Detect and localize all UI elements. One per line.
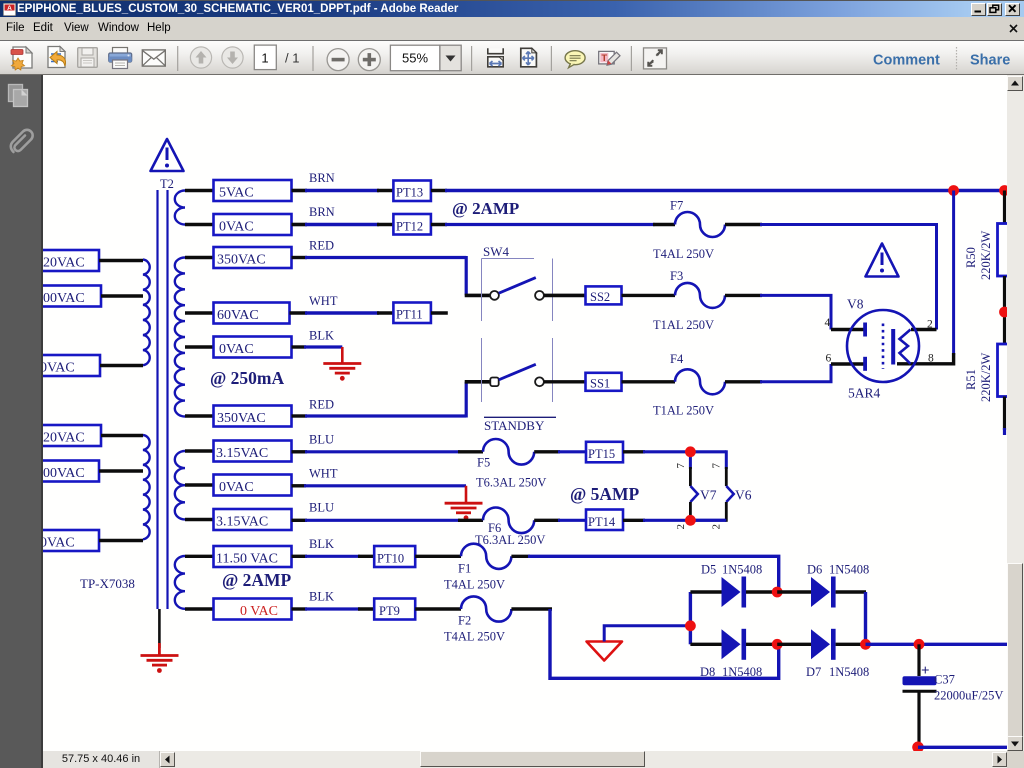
svg-text:PT9: PT9 xyxy=(379,604,400,618)
svg-text:BLU: BLU xyxy=(309,501,334,515)
wire xyxy=(101,294,143,297)
svg-text:+: + xyxy=(921,663,930,679)
svg-text:0VAC: 0VAC xyxy=(43,536,75,551)
node 220VAC (primary box 1) xyxy=(28,250,99,271)
fuse F7 xyxy=(431,223,447,227)
switch SW4 pole 1 xyxy=(490,291,499,300)
svg-text:0VAC: 0VAC xyxy=(43,361,75,376)
node 3.15VAC (secondary tap 2) xyxy=(185,518,214,521)
wire F6 to PT14 xyxy=(534,519,560,522)
svg-text:5VAC: 5VAC xyxy=(219,186,254,201)
svg-text:@ 2AMP: @ 2AMP xyxy=(222,570,292,590)
secondary winding D xyxy=(175,556,185,609)
testpoint PT10 xyxy=(374,546,415,567)
svg-text:6: 6 xyxy=(826,353,832,365)
svg-text:T6.3AL 250V: T6.3AL 250V xyxy=(475,533,545,547)
wire junction to R50 xyxy=(1003,191,1006,224)
wire BLU row9 xyxy=(292,519,308,522)
svg-text:220K/2W: 220K/2W xyxy=(979,231,993,281)
svg-text:TP-X7038: TP-X7038 xyxy=(80,576,135,591)
node 0 VAC (secondary tap, red) xyxy=(185,607,214,610)
svg-text:55%: 55% xyxy=(402,51,428,66)
wire stub after PT11 xyxy=(431,311,448,315)
diode D7 1N5408 xyxy=(777,643,811,646)
wire below R51 xyxy=(1003,397,1006,431)
svg-text:T: T xyxy=(601,53,607,64)
svg-text:1N5408: 1N5408 xyxy=(829,665,869,679)
node 350VAC (secondary tap 2) xyxy=(185,414,214,417)
svg-text:100VAC: 100VAC xyxy=(43,291,85,306)
diode D8 1N5408 xyxy=(690,643,721,646)
svg-text:WHT: WHT xyxy=(309,467,338,481)
node 100VAC (primary box 5) xyxy=(28,461,99,482)
warning triangle (near V8) xyxy=(866,244,899,277)
svg-text:4: 4 xyxy=(825,317,831,329)
svg-text:7: 7 xyxy=(675,463,687,469)
svg-text:Share: Share xyxy=(970,53,1010,69)
wire xyxy=(100,364,143,367)
fuse F6 xyxy=(483,508,534,534)
junction dot xyxy=(999,307,1010,318)
ground (row5) xyxy=(323,347,361,373)
testpoint PT14 xyxy=(586,510,623,531)
secondary winding B xyxy=(175,258,185,417)
svg-text:F7: F7 xyxy=(670,199,683,213)
svg-text:F2: F2 xyxy=(458,614,471,628)
svg-text:Comment: Comment xyxy=(873,53,940,69)
svg-text:220K/2W: 220K/2W xyxy=(979,353,993,403)
svg-text:220VAC: 220VAC xyxy=(43,256,85,271)
wire top rail (5VAC net) xyxy=(431,189,447,193)
wire D6 to right rail xyxy=(836,590,866,593)
node 0VAC (primary box 6) xyxy=(28,530,99,551)
svg-text:BLK: BLK xyxy=(309,537,334,551)
junction dot (D5/D6) xyxy=(772,587,783,598)
svg-text:T1AL 250V: T1AL 250V xyxy=(653,318,714,332)
cathode bar xyxy=(891,329,895,365)
bottom status / hscroll xyxy=(43,751,1024,768)
node 350VAC (secondary tap) xyxy=(185,256,214,259)
bridge left rail xyxy=(689,592,692,644)
switch SW4 pole 2 xyxy=(490,378,498,387)
svg-text:SS1: SS1 xyxy=(590,376,610,390)
svg-text:0VAC: 0VAC xyxy=(219,480,254,495)
node 0VAC (secondary tap, WHT to ground) xyxy=(185,483,214,486)
svg-text:PT11: PT11 xyxy=(396,308,423,322)
svg-text:RED: RED xyxy=(309,398,334,412)
svg-text:T6.3AL 250V: T6.3AL 250V xyxy=(476,476,546,490)
svg-text:11.50 VAC: 11.50 VAC xyxy=(216,552,278,567)
fuse F1 xyxy=(415,555,461,558)
svg-text:RED: RED xyxy=(309,239,334,253)
wire 350VAC(2) up to SW4 pole 2 xyxy=(465,382,468,418)
junction dot (heater bottom) xyxy=(685,515,696,526)
testpoint PT13 xyxy=(393,181,431,202)
wire PT15 to V7 junction xyxy=(623,450,645,453)
wire R50-R51 xyxy=(1003,276,1006,344)
wire SW4 pole1 to SS2 xyxy=(544,294,586,298)
svg-text:1: 1 xyxy=(261,51,268,66)
relay contact SS1 xyxy=(586,373,622,391)
fuse F4 xyxy=(622,380,676,383)
vertical scrollbar xyxy=(1007,75,1024,751)
svg-text:R50: R50 xyxy=(964,247,978,268)
wire RED row6 xyxy=(292,414,308,417)
svg-text:V7: V7 xyxy=(700,488,717,503)
wire from junction down to V8 pin 8 xyxy=(952,191,955,356)
junction dot (heater top) xyxy=(685,446,696,457)
wire PT14 to V7 junction xyxy=(623,519,645,522)
wire xyxy=(101,434,143,437)
testpoint PT11 xyxy=(393,303,431,324)
node 0VAC (primary box 3) xyxy=(28,355,100,376)
junction dot xyxy=(948,185,959,196)
svg-text:350VAC: 350VAC xyxy=(217,253,266,268)
svg-text:3.15VAC: 3.15VAC xyxy=(216,515,268,530)
wire BLK row11 xyxy=(292,607,308,610)
primary winding 1 xyxy=(143,260,150,366)
svg-text:2: 2 xyxy=(711,524,723,530)
wire xyxy=(99,469,143,472)
svg-text:PT10: PT10 xyxy=(377,552,404,566)
wire F7 to V8 pin 2 xyxy=(725,223,762,226)
svg-text:T4AL 250V: T4AL 250V xyxy=(653,247,714,261)
svg-text:D6: D6 xyxy=(807,563,822,577)
anode zigzag xyxy=(900,330,911,364)
svg-text:7: 7 xyxy=(711,463,723,469)
wire WHT row4 xyxy=(290,311,308,315)
svg-text:WHT: WHT xyxy=(309,294,338,308)
wire D7 to right rail junction xyxy=(836,643,866,646)
menu bar xyxy=(0,17,1024,40)
svg-text:BLK: BLK xyxy=(309,590,334,604)
node 100VAC (primary box 2) xyxy=(28,286,101,307)
wire F1 to bridge top xyxy=(511,555,530,558)
svg-text:0 VAC: 0 VAC xyxy=(240,604,278,619)
svg-text:PT12: PT12 xyxy=(396,220,423,234)
svg-text:F3: F3 xyxy=(670,269,683,283)
rectifier tube V8 5AR4 xyxy=(847,310,919,382)
wire F3 to V8 pin 4 xyxy=(725,294,762,297)
wire BLK row5 xyxy=(292,345,307,348)
svg-text:5AR4: 5AR4 xyxy=(848,386,881,401)
node 3.15VAC (secondary tap) xyxy=(185,449,214,452)
svg-text:F1: F1 xyxy=(458,562,471,576)
title bar xyxy=(0,0,1024,17)
wire xyxy=(99,259,143,262)
svg-text:@ 2AMP: @ 2AMP xyxy=(452,199,519,218)
junction dot xyxy=(999,185,1010,196)
wire D8 to junction xyxy=(746,643,777,646)
svg-text:8: 8 xyxy=(928,353,934,365)
svg-text:BRN: BRN xyxy=(309,205,335,219)
fuse F2 xyxy=(415,607,461,610)
ground (transformer core) xyxy=(158,609,161,648)
wire bottom rail xyxy=(918,746,1007,749)
node 60VAC (secondary tap) xyxy=(185,311,214,314)
node 11.50 VAC (secondary tap) xyxy=(185,555,214,558)
wire D5 to junction xyxy=(746,590,777,593)
node 0VAC (secondary tap) xyxy=(185,223,214,226)
svg-text:F5: F5 xyxy=(477,456,490,470)
wire WHT row8 xyxy=(292,484,307,487)
resistor R50 220K/2W xyxy=(998,224,1012,277)
node 0VAC (secondary tap, BLK to ground) xyxy=(185,345,214,348)
resistor R51 220K/2W xyxy=(998,344,1012,397)
wire SW4 pole2 to SS1 xyxy=(544,380,586,383)
svg-text:BRN: BRN xyxy=(309,171,335,185)
testpoint PT15 xyxy=(586,442,623,463)
svg-text:C37: C37 xyxy=(934,673,955,687)
svg-text:BLU: BLU xyxy=(309,433,334,447)
svg-text:PT14: PT14 xyxy=(588,515,616,529)
svg-text:F4: F4 xyxy=(670,352,684,366)
testpoint PT9 xyxy=(374,599,415,620)
diode D5 1N5408 xyxy=(690,590,721,593)
svg-text:220VAC: 220VAC xyxy=(43,431,85,446)
filament (dotted) xyxy=(882,324,885,370)
warning triangle (above T2) xyxy=(151,139,184,171)
svg-text:350VAC: 350VAC xyxy=(217,411,266,426)
nav pane strip xyxy=(0,75,43,768)
toolbar xyxy=(0,40,1024,75)
capacitor C37 22000uF/25V xyxy=(917,644,920,676)
wire F5 to PT15 xyxy=(534,450,560,453)
wire ground to bridge left xyxy=(604,626,690,642)
svg-text:T2: T2 xyxy=(160,177,174,191)
diode D6 1N5408 xyxy=(777,590,811,593)
junction dot (bridge left) xyxy=(685,620,696,631)
svg-text:60VAC: 60VAC xyxy=(217,308,259,323)
svg-text:1N5408: 1N5408 xyxy=(722,563,762,577)
secondary winding A xyxy=(175,191,185,225)
ground (bridge, open triangle) xyxy=(587,642,623,661)
wire BLU row7 xyxy=(292,450,308,453)
ground (row8) xyxy=(445,486,483,513)
svg-text:D7: D7 xyxy=(806,665,821,679)
wire F2 to bridge bottom xyxy=(511,607,552,610)
relay contact SS2 xyxy=(586,286,622,304)
svg-text:BLK: BLK xyxy=(309,329,334,343)
transformer T2 core xyxy=(158,190,168,609)
secondary winding C xyxy=(175,451,185,519)
svg-text:T4AL 250V: T4AL 250V xyxy=(444,630,505,644)
heater V6 xyxy=(725,450,728,469)
wire RED row3 xyxy=(292,256,308,259)
svg-text:STANDBY: STANDBY xyxy=(484,418,545,433)
svg-text:V6: V6 xyxy=(735,488,752,503)
wire C37 to bottom rail xyxy=(917,691,920,747)
svg-text:0VAC: 0VAC xyxy=(219,220,254,235)
svg-text:D8: D8 xyxy=(700,665,715,679)
wire BRN row1 xyxy=(292,189,308,193)
wire xyxy=(99,539,143,542)
svg-text:A: A xyxy=(7,5,12,12)
svg-text:D5: D5 xyxy=(701,563,716,577)
heater V7 xyxy=(689,452,692,469)
junction dot (D8/D7) xyxy=(772,639,783,650)
fuse F3 xyxy=(622,294,676,297)
wire BRN row2 xyxy=(292,223,308,227)
junction dot (C37 top) xyxy=(914,639,925,650)
svg-text:PT13: PT13 xyxy=(396,186,423,200)
svg-text:2: 2 xyxy=(675,524,687,530)
svg-text:T4AL 250V: T4AL 250V xyxy=(444,578,505,592)
svg-text:SW4: SW4 xyxy=(483,244,510,259)
svg-text:1N5408: 1N5408 xyxy=(829,563,869,577)
junction dot (bridge out) xyxy=(860,639,871,650)
junction dot (bottom rail) xyxy=(912,742,924,754)
svg-text:0VAC: 0VAC xyxy=(219,342,254,357)
svg-text:@ 5AMP: @ 5AMP xyxy=(570,484,640,504)
testpoint PT12 xyxy=(393,214,431,235)
svg-text:3.15VAC: 3.15VAC xyxy=(216,446,268,461)
svg-text:R51: R51 xyxy=(964,369,978,390)
bridge right rail xyxy=(864,592,867,644)
svg-text:22000uF/25V: 22000uF/25V xyxy=(934,689,1003,703)
svg-text:@ 250mA: @ 250mA xyxy=(210,368,284,388)
svg-text:100VAC: 100VAC xyxy=(43,466,85,481)
wire BLK row10 xyxy=(292,555,308,558)
wire bridge out to right xyxy=(866,643,1008,646)
wire F4 to V8 pin 6 xyxy=(725,380,762,383)
wire 350VAC down to SW4 pole 1 xyxy=(465,256,468,295)
switch SW4 linkage frame xyxy=(482,259,553,403)
svg-text:V8: V8 xyxy=(847,297,864,312)
fuse F5 xyxy=(483,439,534,465)
primary winding 2 xyxy=(143,435,150,539)
node 220VAC (primary box 4) xyxy=(28,425,101,446)
svg-text:1N5408: 1N5408 xyxy=(722,665,762,679)
svg-text:PT15: PT15 xyxy=(588,447,615,461)
node 5VAC (secondary tap) xyxy=(185,189,214,192)
svg-text:/ 1: / 1 xyxy=(285,51,299,66)
svg-text:T1AL 250V: T1AL 250V xyxy=(653,404,714,418)
svg-text:SS2: SS2 xyxy=(590,290,610,304)
svg-text:2: 2 xyxy=(927,319,933,331)
